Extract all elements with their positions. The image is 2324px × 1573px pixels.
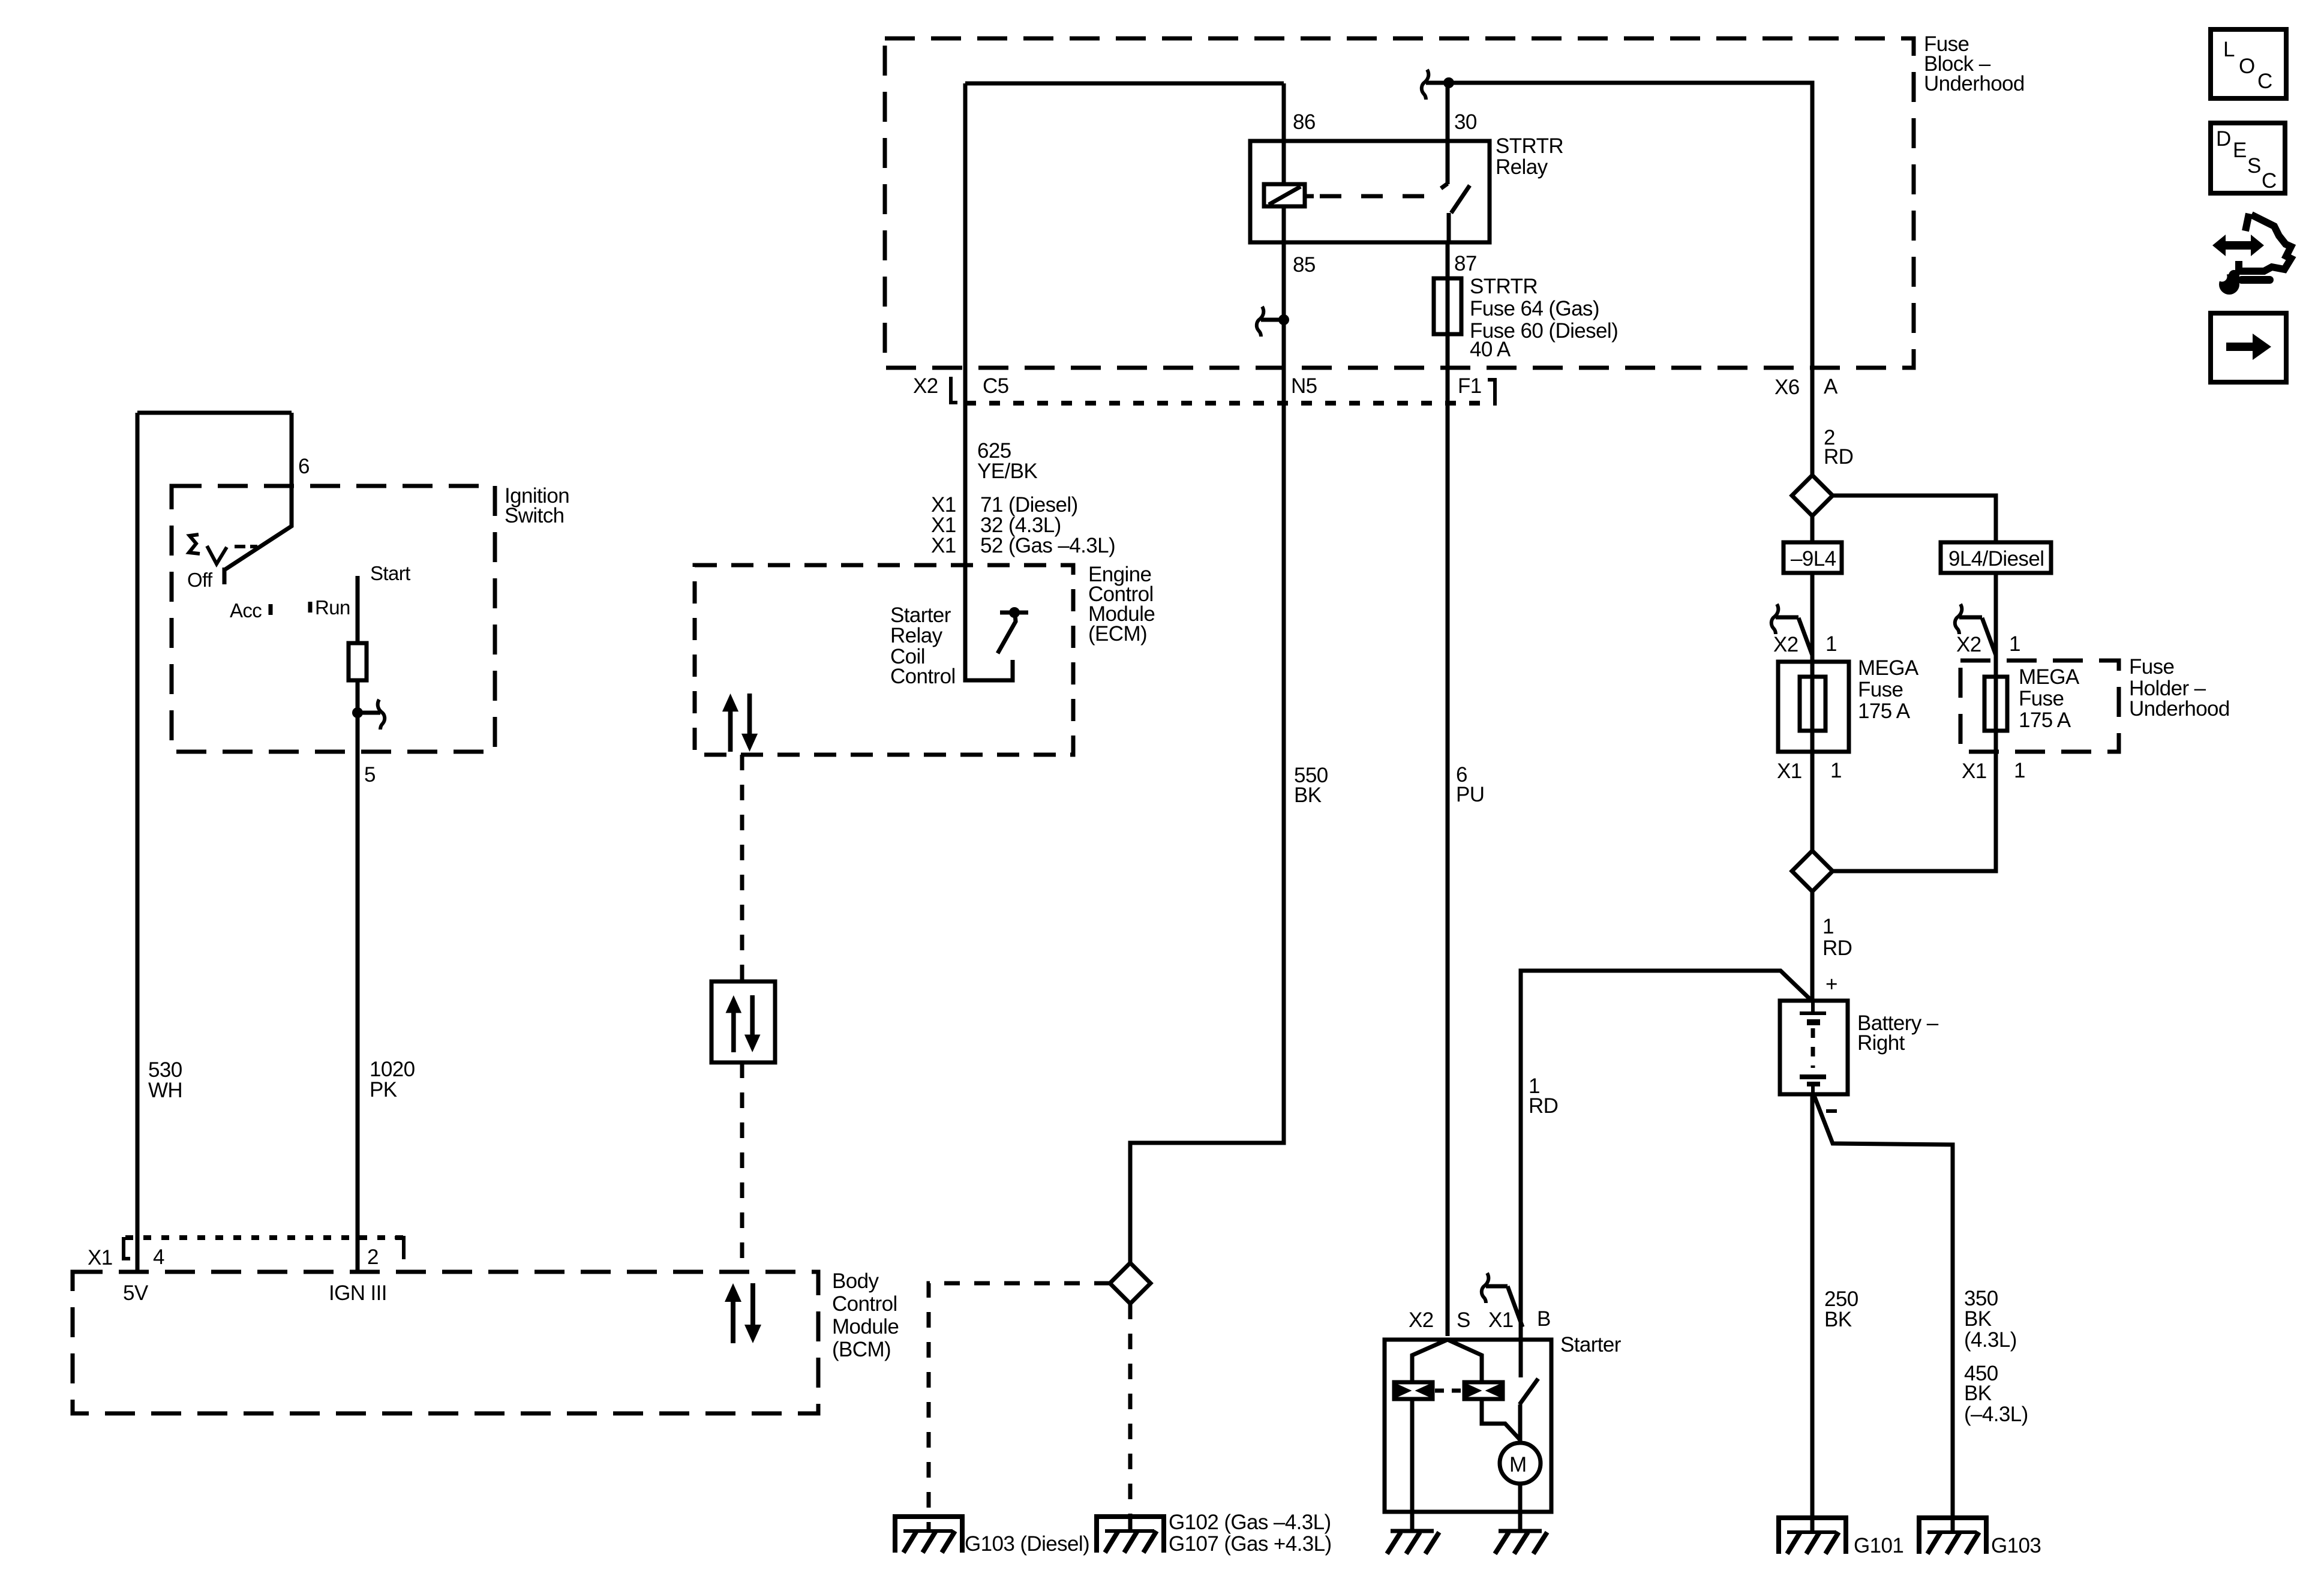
svg-text:Fuse: Fuse bbox=[1858, 678, 1903, 701]
svg-text:X1: X1 bbox=[931, 534, 956, 557]
svg-text:5V: 5V bbox=[123, 1281, 149, 1305]
svg-text:M: M bbox=[1509, 1453, 1527, 1476]
svg-text:L: L bbox=[2223, 38, 2235, 61]
svg-text:9L4/Diesel: 9L4/Diesel bbox=[1948, 547, 2044, 571]
svg-text:G103 (Diesel): G103 (Diesel) bbox=[965, 1532, 1089, 1556]
svg-text:1: 1 bbox=[2009, 632, 2020, 656]
svg-text:BK: BK bbox=[1964, 1382, 1992, 1405]
svg-text:Relay: Relay bbox=[890, 624, 943, 647]
svg-text:52 (Gas –4.3L): 52 (Gas –4.3L) bbox=[980, 534, 1115, 557]
svg-text:(BCM): (BCM) bbox=[832, 1338, 891, 1361]
svg-text:175 A: 175 A bbox=[1858, 700, 1911, 723]
svg-text:Underhood: Underhood bbox=[1924, 72, 2025, 95]
svg-text:6: 6 bbox=[298, 455, 310, 478]
svg-text:RD: RD bbox=[1822, 936, 1852, 960]
svg-text:IGN III: IGN III bbox=[329, 1281, 387, 1305]
svg-text:–9L4: –9L4 bbox=[1791, 547, 1836, 571]
svg-text:30: 30 bbox=[1454, 110, 1477, 134]
svg-text:G107 (Gas +4.3L): G107 (Gas +4.3L) bbox=[1169, 1532, 1332, 1556]
svg-text:E: E bbox=[2233, 139, 2247, 162]
svg-text:X1: X1 bbox=[1488, 1308, 1514, 1332]
svg-text:(–4.3L): (–4.3L) bbox=[1964, 1403, 2028, 1426]
svg-text:Right: Right bbox=[1857, 1031, 1905, 1055]
svg-text:Off: Off bbox=[187, 569, 213, 591]
svg-text:X1: X1 bbox=[1962, 760, 1987, 783]
svg-text:4: 4 bbox=[153, 1245, 164, 1269]
svg-text:87: 87 bbox=[1454, 252, 1477, 275]
svg-text:2: 2 bbox=[367, 1245, 379, 1269]
svg-text:Underhood: Underhood bbox=[2129, 697, 2230, 721]
svg-text:C: C bbox=[2262, 169, 2277, 193]
svg-text:Switch: Switch bbox=[505, 504, 565, 527]
svg-text:Control: Control bbox=[832, 1292, 897, 1316]
svg-text:WH: WH bbox=[148, 1079, 182, 1102]
svg-text:X1: X1 bbox=[88, 1246, 113, 1269]
svg-text:X2: X2 bbox=[1773, 633, 1798, 656]
svg-text:S: S bbox=[2247, 154, 2261, 178]
svg-text:1: 1 bbox=[1830, 759, 1842, 782]
svg-text:PK: PK bbox=[370, 1078, 397, 1101]
svg-text:40 A: 40 A bbox=[1470, 338, 1511, 361]
svg-text:STRTR: STRTR bbox=[1496, 134, 1563, 158]
svg-text:(4.3L): (4.3L) bbox=[1964, 1328, 2017, 1352]
svg-text:Relay: Relay bbox=[1496, 155, 1548, 179]
svg-text:Control: Control bbox=[890, 665, 956, 688]
svg-text:X2: X2 bbox=[1956, 633, 1981, 656]
svg-text:Fuse: Fuse bbox=[2129, 655, 2174, 679]
svg-text:G102 (Gas –4.3L): G102 (Gas –4.3L) bbox=[1169, 1511, 1331, 1534]
svg-text:X2: X2 bbox=[913, 374, 938, 398]
svg-text:1: 1 bbox=[1825, 632, 1837, 656]
svg-text:PU: PU bbox=[1456, 783, 1484, 806]
svg-text:Acc: Acc bbox=[230, 599, 262, 622]
svg-text:G103: G103 bbox=[1991, 1534, 2041, 1557]
svg-text:Fuse: Fuse bbox=[2019, 687, 2064, 710]
svg-text:C: C bbox=[2257, 70, 2272, 93]
svg-text:MEGA: MEGA bbox=[2019, 665, 2080, 689]
svg-text:YE/BK: YE/BK bbox=[977, 460, 1037, 483]
svg-text:RD: RD bbox=[1529, 1094, 1558, 1118]
svg-text:MEGA: MEGA bbox=[1858, 656, 1919, 680]
svg-text:+: + bbox=[1825, 972, 1837, 996]
svg-text:1: 1 bbox=[2014, 759, 2025, 782]
svg-text:Module: Module bbox=[832, 1315, 899, 1338]
svg-text:STRTR: STRTR bbox=[1470, 275, 1538, 298]
svg-text:X6: X6 bbox=[1774, 376, 1800, 399]
svg-text:Starter: Starter bbox=[1560, 1333, 1622, 1356]
svg-text:B: B bbox=[1537, 1307, 1551, 1331]
svg-text:Start: Start bbox=[370, 562, 410, 584]
svg-text:Body: Body bbox=[832, 1269, 879, 1293]
svg-text:BK: BK bbox=[1964, 1307, 1992, 1331]
svg-text:S: S bbox=[1457, 1308, 1470, 1332]
svg-text:85: 85 bbox=[1293, 253, 1316, 277]
svg-text:RD: RD bbox=[1824, 445, 1853, 469]
svg-text:BK: BK bbox=[1824, 1308, 1852, 1331]
svg-text:5: 5 bbox=[364, 763, 376, 786]
svg-text:Run: Run bbox=[315, 596, 350, 619]
svg-text:BK: BK bbox=[1294, 784, 1322, 807]
svg-text:N5: N5 bbox=[1291, 374, 1317, 398]
svg-text:175 A: 175 A bbox=[2019, 709, 2071, 732]
svg-text:X2: X2 bbox=[1409, 1308, 1434, 1332]
svg-text:1: 1 bbox=[1822, 915, 1834, 938]
svg-text:G101: G101 bbox=[1854, 1534, 1903, 1557]
svg-text:C5: C5 bbox=[983, 374, 1009, 398]
svg-text:86: 86 bbox=[1293, 110, 1316, 134]
svg-text:Fuse 64 (Gas): Fuse 64 (Gas) bbox=[1470, 297, 1599, 320]
svg-text:F1: F1 bbox=[1458, 374, 1482, 398]
svg-text:O: O bbox=[2239, 55, 2255, 78]
svg-text:(ECM): (ECM) bbox=[1088, 622, 1147, 646]
svg-text:D: D bbox=[2216, 127, 2231, 151]
svg-text:A: A bbox=[1824, 375, 1838, 398]
svg-text:X1: X1 bbox=[1777, 760, 1802, 783]
